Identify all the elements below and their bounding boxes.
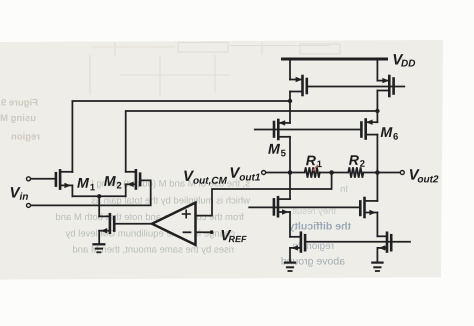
ghost right col the difficulty — [289, 222, 351, 232]
terminal Vout1 — [262, 171, 266, 175]
resistor R1 — [305, 167, 320, 177]
ghost right col they result — [292, 207, 336, 216]
label Vout2 — [410, 169, 439, 182]
bottom NMOS pair gate line — [305, 241, 410, 243]
wire M2 drain to right folding node — [126, 111, 378, 172]
NMOS cascode gate bias line — [249, 206, 360, 208]
ghost text line5 — [73, 246, 233, 255]
label VDD — [394, 54, 416, 66]
ghost right col above ground — [281, 257, 344, 267]
label VoutCM — [184, 171, 227, 186]
CM sense wire to op-amp + input — [196, 173, 332, 216]
resistor R2 — [348, 167, 363, 177]
input transistor M2 — [31, 170, 151, 205]
label R1 — [306, 156, 322, 167]
common source wire — [72, 195, 125, 197]
label VREF — [222, 230, 247, 242]
node CM sense midpoint — [329, 170, 334, 175]
terminal VREF — [210, 230, 214, 234]
label M5 — [268, 144, 285, 156]
ghost bleed-through circuit at top — [90, 42, 340, 96]
ground tail — [94, 244, 105, 252]
wire tail node to tail transistor — [98, 196, 100, 216]
cascode NMOS left — [274, 173, 290, 237]
PMOS current source left (upper) — [290, 61, 307, 123]
tail current NMOS — [99, 214, 152, 244]
terminal Vin- — [27, 203, 31, 207]
node tail — [97, 194, 101, 198]
PMOS current source right (upper) — [377, 61, 393, 123]
node at right folding point — [375, 109, 379, 113]
label M1 — [77, 178, 95, 190]
node Vout2 column — [375, 170, 380, 175]
ground left bottom — [285, 263, 295, 271]
current source NMOS left (bottom) — [290, 233, 305, 262]
op-amp minus input wire to VREF — [196, 231, 210, 233]
ghost margin caption line3 — [12, 133, 40, 142]
ghost right col In — [341, 185, 347, 192]
wire M1 drain to left folding node — [72, 101, 290, 172]
top PMOS pair gate interconnect — [307, 86, 405, 88]
ghost right col region — [293, 242, 333, 251]
op-amp CMFB amplifier — [152, 203, 196, 245]
ground right bottom — [372, 263, 382, 271]
ghost text line3 — [56, 213, 244, 220]
node Vout1 column — [288, 170, 293, 175]
label M2 — [104, 176, 121, 188]
current source NMOS right (bottom) — [377, 233, 391, 262]
output line Vout1..Vout2 — [266, 172, 305, 174]
cascode PMOS M6 — [361, 120, 377, 173]
ghost text line4 — [66, 230, 235, 239]
terminal Vout2 — [400, 171, 404, 175]
input transistor M1 — [31, 170, 73, 196]
label M6 — [381, 127, 398, 139]
cascode PMOS M5 — [274, 120, 290, 173]
red pen mark near R1 — [313, 165, 317, 170]
label R2 — [349, 155, 365, 166]
label Vin — [11, 187, 28, 200]
node at left folding point — [288, 99, 292, 103]
ghost margin caption line2 — [0, 114, 35, 123]
label Vout1 — [231, 167, 260, 180]
ghost text line1 — [92, 180, 250, 189]
terminal Vin+ — [27, 177, 31, 181]
VDD rail — [283, 58, 387, 61]
M5/M6 cascode gate bias line — [255, 129, 362, 131]
ghost margin caption line1 — [0, 99, 37, 108]
ghost text line2 — [91, 197, 250, 206]
cascode NMOS right — [360, 173, 377, 237]
scanned paper area — [0, 40, 443, 280]
